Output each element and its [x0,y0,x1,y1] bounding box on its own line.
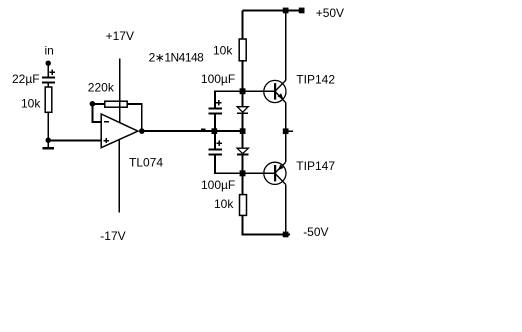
junction square -50V rail [283,232,289,238]
junction square +50V rail [283,8,289,14]
stray dash on output wire [201,128,206,130]
input terminal node [46,61,51,66]
svg-text:TIP147: TIP147 [296,159,335,173]
svg-text:+17V: +17V [106,29,134,43]
capacitor C3 polarity + [217,141,223,147]
wire +50V rail to R3 [242,11,244,40]
wire D1 to diode junction [242,113,244,131]
op-amp output node [139,128,145,134]
wire R2 to output column [127,104,142,131]
op-amp U1 TL074 [101,114,138,148]
-17V supply wire [118,140,120,212]
wire input node to C1 [47,63,49,76]
wire R4 to -50V rail [243,215,286,234]
wire R3 to base junction Q1 [242,61,244,91]
capacitor C2 100µF top [209,108,223,113]
+17V supply wire [119,59,121,123]
junction square C2/C3 on output line [212,128,218,134]
wire base junction Q2 to R4 [242,173,244,194]
diode D2 1N4148 [237,148,248,154]
transistor Q1 TIP142 [264,80,286,102]
emitter wire Q2 to output node [285,131,287,162]
wire base junction to diode D1 [242,91,244,107]
capacitor C2 polarity + [216,100,222,106]
wire junction to op-amp noninverting input [48,139,101,141]
svg-text:100µF: 100µF [201,178,235,192]
junction square base Q2 [240,170,246,176]
svg-text:-17V: -17V [100,229,125,243]
wire D2 to base junction Q2 [242,155,244,174]
collector wire Q2 to -50V rail [285,184,287,234]
svg-text:10k: 10k [213,43,233,57]
wire feedback node to inverting input [92,104,101,122]
svg-text:220k: 220k [88,81,115,95]
diode D1 1N4148 [237,107,248,114]
wire C3 bottom plate to base rail Q2 [215,155,264,173]
output node square [283,128,289,134]
svg-text:10k: 10k [21,97,41,111]
resistor R3 10k [239,39,246,61]
svg-text:+50V: +50V [316,6,344,20]
wire C1 to R1 [47,83,49,87]
capacitor C3 100µF bottom [209,149,223,154]
capacitor C1 22µF [42,78,55,83]
capacitor C1 polarity + [50,70,56,75]
transistor Q2 TIP147 [264,162,286,184]
resistor R4 10k [240,195,247,216]
emitter wire Q1 to output node [285,103,287,132]
svg-text:22µF: 22µF [12,72,40,86]
wire R1 to ground junction [47,112,49,140]
op-amp inverting input minus sign [104,121,109,123]
svg-text:10k: 10k [214,197,234,211]
svg-text:-50V: -50V [303,225,328,239]
wire C2 top plate to base rail Q1 [215,91,264,107]
wire stub to +50V terminal [286,10,300,12]
op-amp noninverting input plus sign [104,138,109,143]
wire C2 bottom plate to junction [214,114,216,131]
junction node at ground [46,138,51,143]
junction square between diodes [240,128,246,134]
junction square base Q1 [240,88,246,94]
collector wire Q1 to +50V rail [285,11,287,81]
svg-text:100µF: 100µF [201,72,235,86]
wire junction down to C3 [214,131,216,148]
wire diode junction to D2 [242,131,244,148]
+50V terminal square [299,8,305,14]
wire output to coupling junction [142,130,243,132]
svg-text:2∗1N4148: 2∗1N4148 [149,50,205,64]
ground [43,140,55,148]
resistor R1 10k [45,87,52,112]
wire feedback node to R2 [92,103,104,105]
wire stub -50V [286,234,290,236]
svg-text:TL074: TL074 [129,155,163,169]
output stub wire [289,130,294,132]
+50V rail wire [243,10,286,12]
svg-text:TIP142: TIP142 [296,72,335,86]
resistor R2 220k [105,101,127,107]
feedback node [90,101,96,107]
svg-text:in: in [45,43,54,57]
